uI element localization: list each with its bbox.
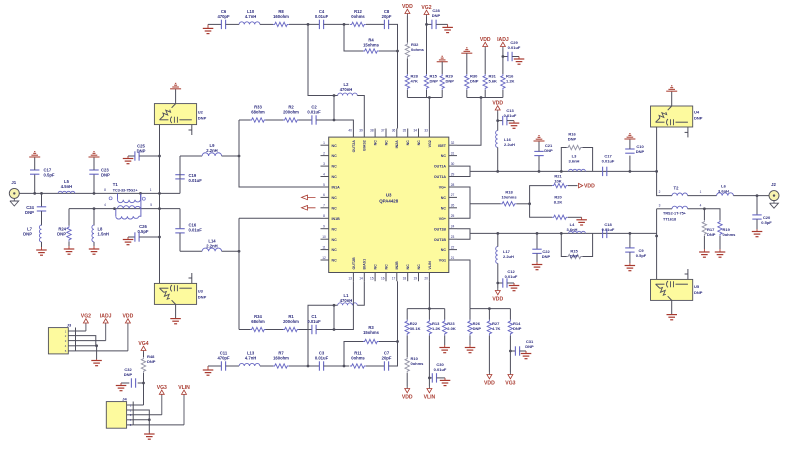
svg-text:VG+: VG+ [439,217,446,221]
svg-text:0ohms: 0ohms [723,232,737,237]
svg-text:470pF: 470pF [217,14,230,19]
svg-text:27: 27 [451,193,455,197]
svg-text:0ohms: 0ohms [411,361,425,366]
svg-text:NC: NC [332,248,338,252]
svg-text:20pF: 20pF [382,356,392,361]
svg-text:0.01uF: 0.01uF [504,113,517,118]
svg-text:30: 30 [451,162,455,166]
svg-text:0.01uF: 0.01uF [307,110,321,115]
svg-text:1.2K: 1.2K [432,326,441,331]
svg-text:DNP: DNP [147,359,156,364]
svg-text:U2: U2 [198,110,204,115]
svg-text:10: 10 [322,235,326,239]
svg-text:38: 38 [370,129,374,133]
svg-text:1.2K: 1.2K [506,79,515,84]
svg-text:68ohm: 68ohm [251,319,265,324]
svg-text:VDD: VDD [402,394,413,400]
svg-text:OUT1B: OUT1B [434,227,447,231]
svg-text:28: 28 [451,183,455,187]
svg-text:35: 35 [403,129,407,133]
svg-text:VDD: VDD [484,380,495,386]
svg-text:TT1618: TT1618 [663,218,676,222]
svg-text:NC: NC [332,154,338,158]
svg-text:NC: NC [332,175,338,179]
svg-text:IN1A: IN1A [332,186,341,190]
svg-text:14: 14 [359,277,363,281]
svg-text:VLIN: VLIN [428,261,432,270]
svg-text:VDD: VDD [492,296,503,302]
svg-text:VDD: VDD [123,314,134,320]
svg-text:DNP: DNP [101,173,110,178]
svg-text:IADJ: IADJ [497,37,509,43]
svg-text:U4: U4 [694,110,700,115]
svg-text:IN2B: IN2B [395,261,399,270]
svg-text:DNP: DNP [694,290,703,295]
svg-text:7: 7 [323,204,325,208]
svg-text:VG3: VG3 [505,380,515,386]
svg-text:2.2nH: 2.2nH [206,243,217,248]
svg-text:T1: T1 [113,182,119,187]
svg-text:25: 25 [451,214,455,218]
svg-text:VDD: VDD [480,37,491,43]
svg-text:U3: U3 [386,193,392,198]
svg-text:NC: NC [374,264,378,270]
svg-text:15: 15 [370,277,374,281]
svg-text:VG+: VG+ [439,186,446,190]
svg-text:2: 2 [323,151,325,155]
svg-text:23: 23 [451,235,455,239]
svg-text:12: 12 [322,256,326,260]
svg-text:NC: NC [332,238,338,242]
svg-text:3.6nH: 3.6nH [567,227,578,232]
svg-text:32: 32 [451,141,455,145]
svg-text:TC3-33-75G2+: TC3-33-75G2+ [113,188,138,192]
svg-text:21: 21 [451,256,455,260]
svg-text:36: 36 [392,129,396,133]
svg-text:0.01uF: 0.01uF [189,178,203,183]
svg-text:NC: NC [332,144,338,148]
svg-text:1: 1 [700,190,702,194]
svg-text:2.0K: 2.0K [447,326,456,331]
svg-text:DNP: DNP [137,149,146,154]
svg-text:0.01uF: 0.01uF [505,274,518,279]
svg-text:10ohms: 10ohms [501,195,517,200]
svg-text:DNP: DNP [198,116,207,121]
svg-text:NC: NC [332,165,338,169]
svg-text:11: 11 [322,245,326,249]
svg-text:30.1K: 30.1K [410,326,421,331]
svg-text:VG2: VG2 [428,140,432,147]
svg-text:20pF: 20pF [382,14,392,19]
svg-text:3: 3 [659,203,661,207]
svg-text:37: 37 [381,129,385,133]
svg-text:U5: U5 [694,284,700,289]
svg-text:1: 1 [323,141,325,145]
svg-text:0.01uF: 0.01uF [508,45,521,50]
svg-text:200ohm: 200ohm [283,110,299,115]
svg-text:DNP: DNP [432,13,441,18]
svg-text:5.6K: 5.6K [489,79,498,84]
svg-text:8: 8 [323,214,325,218]
svg-text:3.6nH: 3.6nH [569,159,580,164]
svg-text:VLIN: VLIN [424,394,436,400]
svg-text:NC: NC [441,154,447,158]
svg-text:NC: NC [441,206,447,210]
svg-text:8: 8 [104,188,106,192]
svg-text:T2: T2 [674,186,680,191]
svg-text:DNP: DNP [513,326,522,331]
svg-text:0.01uF: 0.01uF [315,356,329,361]
svg-text:0.5pF: 0.5pF [761,220,772,225]
svg-text:DNP: DNP [570,254,579,259]
svg-text:16: 16 [381,277,385,281]
svg-text:1.5nH: 1.5nH [98,232,109,237]
svg-text:470nH: 470nH [340,87,353,92]
svg-text:15ohms: 15ohms [363,43,379,48]
svg-text:3: 3 [323,162,325,166]
svg-text:0.01uF: 0.01uF [307,319,321,324]
svg-text:15ohms: 15ohms [363,330,379,335]
svg-text:VG1: VG1 [439,259,446,263]
svg-text:J3: J3 [67,323,72,328]
svg-text:VG4: VG4 [138,341,148,347]
svg-text:17: 17 [392,277,396,281]
svg-text:OUT1B: OUT1B [434,238,447,242]
svg-text:8.2K: 8.2K [554,200,563,205]
svg-text:TRS2-1T-75+: TRS2-1T-75+ [663,212,687,216]
svg-text:0.5pF: 0.5pF [44,173,55,178]
svg-text:29: 29 [451,172,455,176]
svg-text:39: 39 [359,129,363,133]
svg-text:0.5pF: 0.5pF [138,229,149,234]
svg-text:4: 4 [104,203,106,207]
svg-text:9: 9 [323,225,325,229]
svg-text:VDD: VDD [492,101,503,107]
svg-text:NC: NC [384,140,388,146]
svg-text:NC: NC [332,227,338,231]
svg-text:VG3: VG3 [157,385,167,391]
svg-text:5: 5 [323,183,325,187]
svg-text:VG2: VG2 [421,5,431,11]
svg-text:DNP: DNP [25,210,34,215]
svg-text:DNP: DNP [23,232,32,237]
svg-text:34: 34 [413,129,417,133]
svg-text:1: 1 [150,188,152,192]
svg-text:19: 19 [413,277,417,281]
svg-text:31: 31 [451,151,455,155]
svg-text:4.7nH: 4.7nH [245,14,256,19]
svg-text:DNP: DNP [473,326,482,331]
svg-text:26: 26 [451,204,455,208]
svg-text:BIAS1: BIAS1 [363,259,367,270]
svg-text:0ohms: 0ohms [411,47,425,52]
svg-text:NC: NC [332,196,338,200]
svg-text:4.5nH: 4.5nH [61,184,72,189]
svg-text:13: 13 [348,277,352,281]
svg-text:DNP: DNP [707,232,716,237]
svg-text:160ohm: 160ohm [273,14,289,19]
svg-text:J1: J1 [11,180,16,185]
svg-text:NC: NC [384,264,388,270]
svg-text:DNP: DNP [544,148,553,153]
svg-text:470nH: 470nH [340,298,353,303]
svg-text:40: 40 [348,129,352,133]
svg-text:6: 6 [323,193,325,197]
svg-text:VLIN: VLIN [178,385,190,391]
svg-text:NC: NC [406,264,410,270]
svg-text:4.7K: 4.7K [492,326,501,331]
svg-text:200ohm: 200ohm [283,319,299,324]
svg-text:DNP: DNP [694,116,703,121]
svg-text:2.2uH: 2.2uH [504,142,515,147]
svg-text:DNP: DNP [636,149,645,154]
svg-text:NC: NC [332,259,338,263]
svg-text:NC: NC [417,264,421,270]
svg-text:NC: NC [406,140,410,146]
svg-text:5: 5 [150,203,152,207]
svg-text:VG2: VG2 [81,314,91,320]
svg-text:20: 20 [424,277,428,281]
svg-text:NC: NC [332,206,338,210]
svg-text:2.2nH: 2.2nH [206,148,217,153]
svg-text:IADJ: IADJ [100,314,112,320]
svg-text:NC: NC [441,248,447,252]
svg-text:470pF: 470pF [217,356,230,361]
svg-text:OUT2B: OUT2B [352,257,356,270]
svg-text:0ohms: 0ohms [351,356,365,361]
svg-text:0.01uF: 0.01uF [434,367,447,372]
svg-text:4: 4 [700,203,702,207]
svg-text:DNP: DNP [124,372,133,377]
svg-text:0.01uF: 0.01uF [189,228,203,233]
svg-text:NC: NC [374,140,378,146]
svg-text:DNP: DNP [525,344,534,349]
svg-text:24: 24 [451,225,455,229]
svg-text:2.2uH: 2.2uH [503,254,514,259]
svg-text:BIAS2: BIAS2 [363,140,367,151]
svg-text:DNP: DNP [542,254,551,259]
svg-text:OUT1A: OUT1A [434,175,447,179]
svg-text:4: 4 [323,172,325,176]
svg-text:DNP: DNP [430,79,439,84]
svg-text:18: 18 [403,277,407,281]
svg-text:160ohm: 160ohm [273,356,289,361]
svg-text:DNP: DNP [446,79,455,84]
svg-text:IN2A: IN2A [395,140,399,149]
svg-text:DNP: DNP [57,232,66,237]
svg-text:QPA4428: QPA4428 [379,199,399,204]
svg-text:47K: 47K [411,79,418,84]
svg-text:2: 2 [659,190,661,194]
svg-text:3.6nH: 3.6nH [718,189,729,194]
svg-text:68ohm: 68ohm [251,110,265,115]
svg-text:4.7nH: 4.7nH [245,356,256,361]
svg-text:0.5pF: 0.5pF [636,253,647,258]
svg-text:U3: U3 [198,289,204,294]
svg-text:DNP: DNP [198,295,207,300]
svg-text:J4: J4 [122,396,127,401]
svg-text:ISET: ISET [438,144,447,148]
svg-text:J2: J2 [771,182,776,187]
svg-text:NC: NC [441,196,447,200]
svg-text:DNP: DNP [568,137,577,142]
svg-text:0.01uF: 0.01uF [602,159,615,164]
svg-text:10K: 10K [554,179,561,184]
svg-text:0.01uF: 0.01uF [315,14,329,19]
svg-text:OUT2A: OUT2A [352,140,356,153]
svg-text:DNP: DNP [470,79,479,84]
svg-text:VDD: VDD [402,4,413,10]
svg-text:NC: NC [417,140,421,146]
svg-text:0.01uF: 0.01uF [602,227,615,232]
svg-text:22: 22 [451,245,455,249]
svg-text:33: 33 [424,129,428,133]
svg-text:OUT1A: OUT1A [434,165,447,169]
svg-text:VDD: VDD [584,183,595,189]
svg-text:IN1B: IN1B [332,217,341,221]
svg-text:0ohms: 0ohms [351,14,365,19]
